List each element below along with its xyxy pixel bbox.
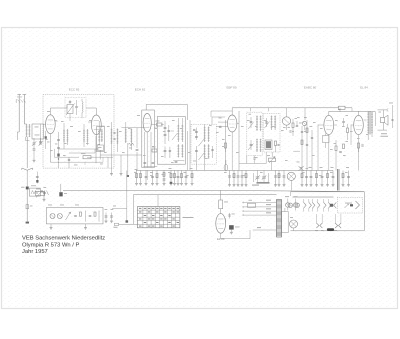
det h lines (239, 163, 266, 165)
grid comps left of EABC (301, 126, 303, 171)
antenna wires (18, 95, 20, 133)
black connector blob (327, 228, 334, 231)
jack circle (282, 117, 290, 125)
ECH81 anode loop (145, 104, 147, 110)
svg-text:ECC 85: ECC 85 (69, 88, 80, 92)
lampbox grounds (50, 224, 52, 228)
det res right (292, 123, 294, 128)
output transformer (367, 112, 369, 134)
second speaker label (345, 202, 352, 205)
tube EZ80 (216, 214, 226, 234)
ECH81 inner verticals (144, 132, 146, 168)
chassis thick line (337, 169, 339, 191)
volume pot box (30, 188, 41, 196)
bus drops (304, 108, 306, 120)
ant cap stack (36, 172, 38, 184)
IF1 top winding (177, 124, 179, 142)
volume pot 250k (36, 191, 45, 195)
IF II dashed box (191, 124, 216, 164)
connector blob small (330, 204, 333, 207)
power transformer winding (277, 200, 282, 238)
chevron stems (303, 199, 305, 202)
svg-text:Jahr 1957: Jahr 1957 (22, 249, 48, 255)
RD top winding (256, 116, 258, 132)
tuning label dark (257, 182, 270, 183)
tube ECC85 a (46, 115, 56, 134)
IF2 top winding (204, 127, 206, 143)
IF2 wires (204, 159, 206, 171)
FM det winding (271, 116, 273, 131)
volume pot (269, 158, 276, 161)
fuse box (282, 212, 289, 233)
component row left (136, 171, 138, 184)
tube EABC80 (324, 115, 334, 134)
outside ground left (40, 124, 42, 141)
svg-text:EABC 80: EABC 80 (304, 86, 317, 90)
socket circles (288, 203, 292, 207)
UKW right transformer (83, 129, 85, 143)
small jack circle left (302, 121, 306, 125)
tube EL84 (354, 115, 364, 134)
UKW bottom cap string1 (58, 132, 60, 163)
RD bottom caps (250, 140, 252, 150)
dial lamps (50, 214, 55, 219)
UKW tuner dashed box (43, 95, 114, 169)
second speaker parts (345, 204, 349, 208)
AM osc label box (98, 145, 104, 151)
scatter labels upper (47, 110, 50, 113)
dial lamp box (46, 208, 103, 224)
speaker frame (291, 191, 365, 193)
IF2 top caps (195, 128, 197, 141)
ferrite rod coil (125, 129, 127, 144)
bus2 corner down (132, 195, 134, 225)
svg-text:EL 84: EL 84 (360, 86, 368, 90)
connector chevrons (304, 202, 307, 208)
svg-text:VEB Sachsenwerk Niedersedlitz: VEB Sachsenwerk Niedersedlitz (22, 236, 105, 242)
UKW bottom marks (68, 158, 70, 160)
dipole symbol (26, 170, 28, 172)
EL84 wires (358, 111, 360, 115)
IF2 diag arrow (199, 139, 205, 146)
table note text (183, 216, 194, 219)
ECC85 b wires (95, 108, 97, 115)
table top wire (157, 195, 159, 207)
row drop wire (126, 171, 128, 221)
IF2 bottom winding (204, 144, 206, 158)
dark dot left (45, 136, 47, 139)
AM osc coil (98, 129, 100, 142)
ground antenna (26, 222, 29, 224)
IF1 bottom winding (177, 144, 179, 157)
tuning cap symbols (256, 176, 260, 178)
UKW inner dashed box (65, 98, 86, 118)
antenna box (32, 124, 44, 139)
loudspeaker (380, 118, 384, 123)
phono jack circle (287, 172, 295, 180)
UKW inner caps (75, 105, 78, 107)
UKW res 50k (83, 156, 91, 159)
plug pair bottom 2 (335, 223, 338, 228)
antenna hatch (18, 100, 21, 103)
plug pair top right (299, 166, 302, 171)
FM det dashed box (264, 113, 280, 152)
AM wires join (99, 150, 101, 160)
HT bus (63, 189, 220, 191)
EZ80 bottom wire (220, 233, 222, 239)
tube EBF89 (228, 115, 237, 132)
ECH81 below comps (143, 165, 157, 167)
switch table (137, 207, 180, 228)
UKW inner coil (82, 102, 83, 104)
left caps near box (105, 213, 107, 221)
trimmer caps left (33, 142, 36, 144)
IF1 diag arrow (172, 133, 178, 140)
second small comps (40, 191, 44, 193)
IF I box (157, 117, 185, 165)
second speaker dashed box (337, 197, 362, 213)
speaker wires (374, 111, 376, 126)
speaker leads (382, 110, 384, 118)
AM zigzag resistor (128, 143, 134, 146)
scatter labels row (134, 171, 137, 174)
UKW trimmer box (67, 105, 73, 114)
det small comps2 (253, 157, 255, 159)
IF1 bottom caps (164, 146, 166, 158)
ant cap dark (26, 172, 28, 186)
coupling comps mid (342, 120, 345, 122)
EBF89 wires (231, 108, 233, 115)
RD bottom winding (256, 139, 258, 152)
svg-text:Olympia R 573 Wn / P: Olympia R 573 Wn / P (22, 242, 79, 248)
ECH81 frame (142, 110, 155, 168)
chassis bus 2 (133, 194, 276, 196)
AM band transformer (111, 129, 113, 145)
ratio det dashed box (247, 112, 262, 155)
switch lamp X (290, 220, 298, 228)
antenna coil L1 (26, 124, 28, 137)
wire+cap to ground (26, 190, 28, 222)
UKW mid transformer (63, 129, 65, 143)
tube ECH81 (143, 114, 151, 132)
antenna wire down (26, 137, 28, 168)
component row right (301, 171, 303, 185)
EABC80 wires (328, 111, 330, 115)
hline 208 (112, 207, 127, 209)
speaker label (381, 132, 387, 135)
IF2 bottom caps (195, 146, 197, 158)
IF1 top caps (164, 121, 166, 144)
RD top caps (250, 117, 252, 128)
pilot lamps (286, 203, 290, 207)
plug pair bottom 1 (316, 223, 319, 228)
EZ80 feed resistor (220, 190, 222, 200)
left col wire (60, 184, 62, 192)
ECH81 right comps (157, 123, 163, 126)
component row mid (229, 171, 231, 185)
antenna bend wire (17, 131, 19, 133)
FM det caps (266, 118, 268, 127)
EBF89 cath comps (219, 125, 222, 127)
row left labels (135, 168, 138, 171)
EABC80 socket box (323, 136, 330, 143)
FM det electrolytic (265, 140, 272, 150)
svg-text:ECH 81: ECH 81 (135, 88, 146, 92)
electrolytic blob (59, 192, 62, 196)
mid verticals to bus (187, 131, 189, 171)
AM osc shield box (97, 127, 105, 152)
upper long bus (136, 169, 333, 171)
svg-text:EBF 89: EBF 89 (226, 86, 236, 90)
50ohm resistor (248, 203, 256, 207)
small term box (114, 223, 118, 225)
electrolytics 2x50uF (229, 225, 234, 229)
UKW hline 149 (59, 148, 100, 150)
B+ bus (232, 107, 338, 109)
small jack ellipse (224, 164, 228, 170)
FM det bottom comps (275, 141, 277, 146)
tube ECC85 b (91, 115, 101, 135)
mains tap lines (244, 201, 277, 203)
ECC85 a wires (49, 108, 51, 115)
left small parts (44, 190, 46, 195)
speaker label row (293, 196, 334, 199)
EZ80 anode caps (229, 213, 231, 219)
